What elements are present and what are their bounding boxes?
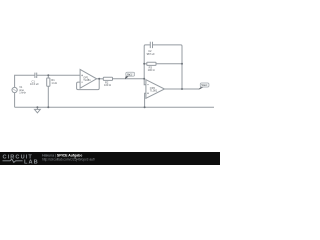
svg-text:TL081: TL081: [83, 78, 91, 82]
wire: R3 right lead: [156, 63, 182, 65]
wire: R1 bottom lead: [47, 86, 49, 107]
C1 label: [30, 80, 39, 87]
svg-text:Va1: Va1: [127, 72, 132, 76]
wire: source bottom to ground rail: [14, 92, 16, 107]
wire: node A down to opamp2 - input: [144, 79, 146, 85]
svg-text:100 Ω: 100 Ω: [104, 83, 111, 87]
wire: R2 to node A: [113, 78, 145, 80]
resistor R2: [103, 77, 112, 80]
R3 label: [148, 66, 155, 73]
wire: R3 left lead: [144, 63, 147, 65]
junction node dots: [36, 63, 183, 108]
voltage source V1: [12, 87, 17, 92]
node flag Va: [125, 72, 135, 79]
wire: R1 top lead: [47, 75, 49, 78]
capacitor C1: [35, 73, 37, 78]
wire: opamp1 feedback loop: [77, 79, 100, 90]
wire: opamp2 output to Vout flag: [165, 88, 200, 90]
wire: feedback left vertical: [144, 45, 150, 79]
resistor R3: [147, 62, 156, 65]
op-amp U2: [146, 80, 165, 99]
wire: C2 right to right vertical down to output: [153, 45, 183, 89]
resistor R1: [47, 78, 50, 86]
svg-text:TL081: TL081: [150, 89, 158, 93]
wire: source top to C1 left plate: [15, 75, 35, 87]
R2 label: [104, 81, 111, 88]
R1 label: [51, 78, 56, 85]
C2 label: [147, 49, 155, 56]
op-amp U1: [80, 69, 97, 88]
svg-text:100 Ω: 100 Ω: [148, 68, 155, 72]
node flag Vout: [199, 83, 209, 90]
svg-text:LAB: LAB: [24, 159, 39, 165]
V1 label: [19, 85, 26, 94]
svg-text:10.6 uF: 10.6 uF: [30, 82, 39, 86]
svg-text:1 kHz: 1 kHz: [19, 90, 26, 94]
ground rail: [15, 106, 214, 108]
svg-text:1 kΩ: 1 kΩ: [51, 81, 56, 85]
capacitor C2: [150, 42, 152, 48]
caption bar: [0, 152, 220, 165]
wire: C1 right plate to opamp1 + input: [37, 74, 80, 76]
wire: opamp1 output to R2: [97, 78, 104, 80]
ground: [35, 107, 41, 113]
svg-text:Vout: Vout: [201, 83, 206, 87]
CircuitLab logo: [3, 155, 39, 166]
svg-text:http://circuitlab.com/c/25j49/: http://circuitlab.com/c/25j49/opv2-auf/: [42, 158, 95, 162]
svg-text:987 uF: 987 uF: [147, 52, 155, 56]
wire: opamp2 + input to ground rail: [145, 93, 146, 107]
